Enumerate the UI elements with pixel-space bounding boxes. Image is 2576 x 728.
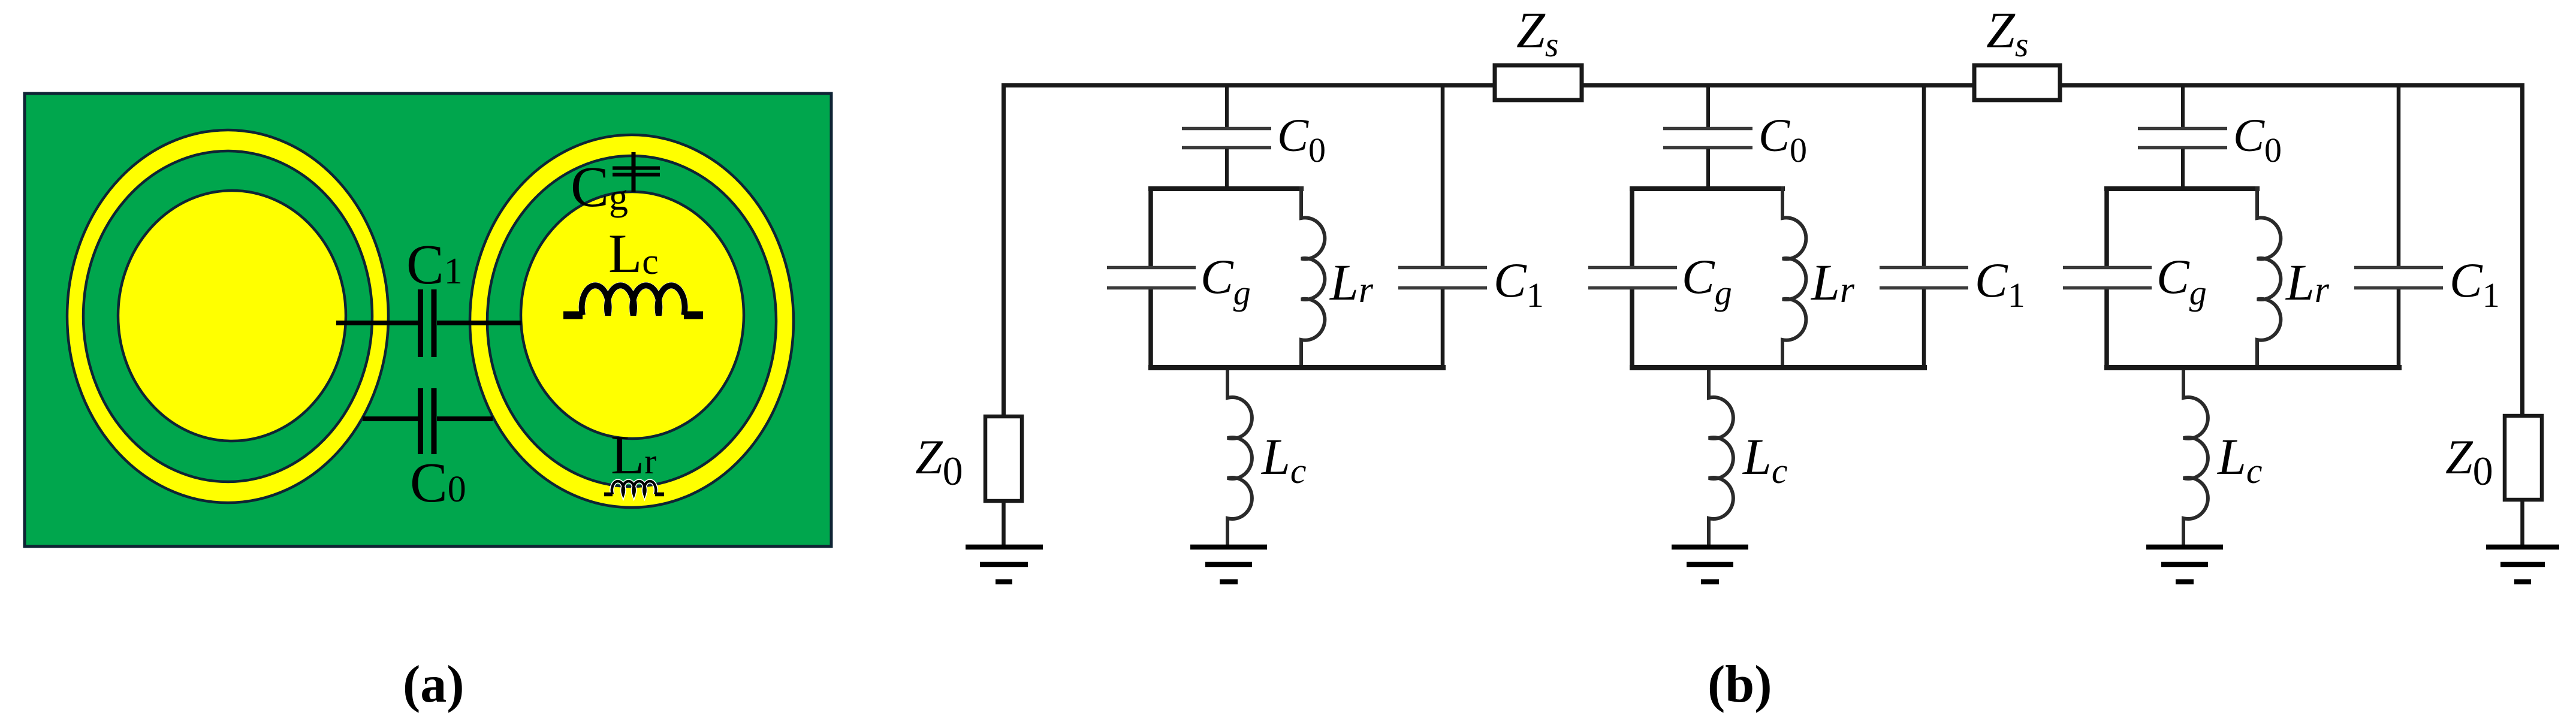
wire: top bus segment 3 bbox=[2060, 83, 2522, 87]
capacitor C0 (cell 1) bbox=[1182, 129, 1271, 148]
svg-text:(a): (a) bbox=[403, 655, 464, 714]
capacitor C0 (cell 3) bbox=[2138, 129, 2227, 148]
inductor Lr (cell 3) bbox=[2257, 186, 2281, 370]
svg-text:C0: C0 bbox=[1758, 109, 1807, 170]
SRR ring inner boundary (left resonator) bbox=[83, 151, 372, 482]
inductor Lr (cell 2) bbox=[1782, 186, 1806, 370]
wire: C1 branch lower segment (cell 2) bbox=[1922, 289, 1926, 368]
capacitor C1 (panel a coupling) bbox=[336, 289, 521, 357]
svg-text:Cg: Cg bbox=[1682, 249, 1732, 312]
svg-text:Lc: Lc bbox=[1260, 428, 1306, 491]
capacitor C1 (cell 1) bbox=[1398, 268, 1487, 288]
wire: right Z0 to ground bbox=[2520, 500, 2524, 545]
wire: resonator box left edge (cell 2) bbox=[1630, 186, 1634, 370]
wire: left port vertical bbox=[1002, 83, 1006, 416]
ground symbol (cell 2 Lc) bbox=[1672, 547, 1748, 582]
resistor Z0 (right load) bbox=[2505, 416, 2542, 500]
wire: top bus segment 2 bbox=[1582, 83, 1974, 87]
svg-text:Lc: Lc bbox=[2216, 428, 2262, 491]
svg-text:Cg: Cg bbox=[1200, 249, 1251, 312]
inductor Lr (cell 1) bbox=[1301, 186, 1325, 370]
svg-text:C0: C0 bbox=[1277, 109, 1326, 170]
svg-text:C1: C1 bbox=[1975, 253, 2025, 315]
wire: C1 branch lower segment (cell 1) bbox=[1441, 289, 1445, 368]
SRR outer ring (right resonator) bbox=[470, 135, 794, 508]
SRR ring inner boundary (right resonator) bbox=[487, 156, 776, 487]
capacitor C0 (cell 2) bbox=[1663, 129, 1752, 148]
wire: C1 branch upper segment (cell 2) bbox=[1922, 83, 1926, 266]
inductor Lc (cell 1) bbox=[1227, 370, 1252, 545]
svg-text:Z0: Z0 bbox=[2445, 430, 2493, 494]
wire: C0 branch lower stub (cell 2) bbox=[1706, 149, 1710, 189]
svg-text:Zs: Zs bbox=[1516, 1, 1558, 64]
inner patch disc (right resonator) bbox=[521, 192, 744, 439]
wire: C0 branch upper stub (cell 3) bbox=[2181, 83, 2185, 128]
svg-text:(b): (b) bbox=[1708, 655, 1772, 714]
capacitor Cg symbol (panel a, ring gap) bbox=[613, 152, 660, 192]
ground symbol (right port) bbox=[2486, 547, 2559, 582]
inductor Lc (cell 3) bbox=[2183, 370, 2208, 545]
ground symbol (cell 3 Lc) bbox=[2146, 547, 2223, 582]
ground symbol (cell 1 Lc) bbox=[1190, 547, 1267, 582]
svg-text:Lc: Lc bbox=[1742, 428, 1787, 491]
wire: C0 branch upper stub (cell 1) bbox=[1225, 83, 1229, 128]
svg-text:Lr: Lr bbox=[1329, 253, 1374, 311]
substrate board (panel a) bbox=[25, 93, 831, 546]
wire: C0 branch lower stub (cell 3) bbox=[2181, 149, 2185, 189]
resistor Zs (series impedance 2) bbox=[1974, 65, 2060, 100]
wire: resonator box bottom edge (cell 1) bbox=[1148, 365, 1446, 370]
wire: C1 branch upper segment (cell 3) bbox=[2397, 83, 2401, 266]
capacitor C1 (cell 3) bbox=[2354, 268, 2443, 288]
capacitor Cg (cell 2) bbox=[1588, 268, 1677, 288]
svg-text:Lr: Lr bbox=[1810, 253, 1855, 311]
wire: resonator box top edge (cell 3) bbox=[2104, 186, 2260, 191]
capacitor C0 (panel a coupling) bbox=[363, 388, 493, 454]
svg-text:C0: C0 bbox=[2233, 109, 2282, 170]
wire: C0 branch lower stub (cell 1) bbox=[1225, 149, 1229, 189]
resistor Zs (series impedance 1) bbox=[1495, 65, 1582, 100]
wire: resonator box bottom edge (cell 3) bbox=[2104, 365, 2402, 370]
wire: C1 branch lower segment (cell 3) bbox=[2397, 289, 2401, 368]
capacitor Cg (cell 1) bbox=[1107, 268, 1196, 288]
inductor Lc (cell 2) bbox=[1709, 370, 1733, 545]
wire: resonator box bottom edge (cell 2) bbox=[1630, 365, 1927, 370]
wire: top bus segment 1 bbox=[1002, 83, 1495, 87]
inductor Lr symbol (panel a, ring) bbox=[604, 481, 664, 494]
inductor Lc symbol (panel a) bbox=[563, 285, 703, 315]
inner patch disc (left resonator) bbox=[118, 191, 346, 441]
wire: right port vertical bbox=[2520, 83, 2524, 416]
wire: C1 branch upper segment (cell 1) bbox=[1441, 83, 1445, 266]
ground symbol (left port) bbox=[966, 547, 1043, 582]
svg-text:C1: C1 bbox=[1494, 253, 1544, 315]
svg-text:Lr: Lr bbox=[2285, 253, 2330, 311]
svg-text:Zs: Zs bbox=[1986, 1, 2028, 64]
svg-text:Z0: Z0 bbox=[915, 430, 963, 494]
wire: resonator box left edge (cell 3) bbox=[2104, 186, 2109, 370]
capacitor C1 (cell 2) bbox=[1880, 268, 1968, 288]
wire: resonator box left edge (cell 1) bbox=[1148, 186, 1153, 370]
svg-text:Cg: Cg bbox=[2156, 249, 2207, 312]
resistor Z0 (left load) bbox=[985, 416, 1022, 501]
wire: left Z0 to ground bbox=[1002, 501, 1006, 545]
wire: resonator box top edge (cell 2) bbox=[1630, 186, 1785, 191]
svg-text:C1: C1 bbox=[2450, 253, 2500, 315]
wire: resonator box top edge (cell 1) bbox=[1148, 186, 1304, 191]
SRR outer ring (left resonator) bbox=[67, 130, 388, 503]
wire: C0 branch upper stub (cell 2) bbox=[1706, 83, 1710, 128]
capacitor Cg (cell 3) bbox=[2063, 268, 2152, 288]
